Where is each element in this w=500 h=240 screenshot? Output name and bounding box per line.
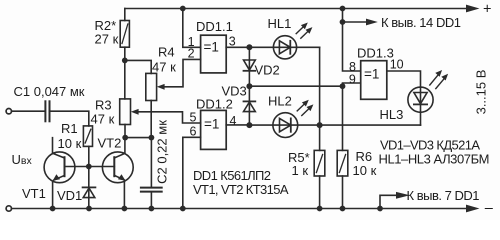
node R2/R3/R4 junction [122,58,128,64]
svg-text:1 к: 1 к [292,163,309,178]
svg-text:К выв. 14 DD1: К выв. 14 DD1 [381,15,461,30]
svg-text:VT1, VT2 КТ315А: VT1, VT2 КТ315А [193,182,289,197]
ground rail junction dots [50,206,56,212]
svg-text:HL3: HL3 [380,107,404,122]
wire HL row to HL3 [320,124,421,126]
wire top rail corner down to R2 [124,9,126,21]
wire VT1 emitter to ground rail [52,182,54,209]
svg-text:DD1.2: DD1.2 [196,97,233,112]
node on top rail [340,6,346,12]
wire base node to VT2 base [89,166,115,168]
svg-text:DD1 К561ЛП2: DD1 К561ЛП2 [193,168,271,183]
resistor R5 [314,150,325,176]
ground rail [6,206,11,211]
wire R4 bottom to C2 node [150,101,152,138]
wire collector row [125,137,151,139]
svg-text:10 к: 10 к [353,163,377,178]
wire junction to R4 top [125,60,151,73]
svg-text:6: 6 [190,125,197,139]
LED HL1 [249,46,296,48]
resistor R2 [120,21,129,48]
wire R5 top [319,125,321,150]
svg-text:R3: R3 [95,98,112,113]
svg-text:4: 4 [230,114,237,128]
svg-text:C1 0,047 мк: C1 0,047 мк [14,84,85,99]
wire pin 10 to HL3 [387,71,421,104]
svg-text:27 к: 27 к [95,32,119,47]
arrowhead end of ground rail [466,205,480,213]
svg-text:Uвх: Uвх [12,152,33,167]
wire R2 bottom to junction [124,47,126,60]
wire pin 3 output to node A [226,46,249,48]
svg-text:=1: =1 [204,40,219,55]
wire pin 6 to ground [183,137,201,208]
wire C2 node down to C2 [150,138,152,187]
wire HL3 cathode down to row [420,105,422,125]
node HL cathodes / R5 [317,122,323,128]
svg-text:47 к: 47 к [152,60,176,75]
svg-text:10 к: 10 к [58,136,82,151]
svg-text:VT2: VT2 [98,136,122,151]
wire HL1 down right column [319,47,321,125]
logic gate DD1.1 [201,35,227,73]
wire pin 8 from +rail tap [343,9,361,72]
resistor R1 [83,126,92,146]
wire R3 bottom to collector node [124,125,126,138]
svg-text:DD1.3: DD1.3 [357,46,394,61]
svg-text:=1: =1 [204,117,219,132]
svg-text:VD1–VD3 КД521А: VD1–VD3 КД521А [380,138,480,153]
resistor R6 [342,86,344,150]
capacitor C1 [45,101,49,121]
arrow to pin 14 label [343,21,368,23]
node R4 bottom / C2 [149,135,155,141]
HL1 emission arrows [296,25,305,34]
svg-text:10: 10 [390,58,404,72]
svg-text:3: 3 [229,35,236,49]
wire VT2 emitter to ground rail [123,182,125,209]
svg-text:HL1: HL1 [268,16,292,31]
svg-text:VT1: VT1 [22,186,46,201]
svg-text:DD1.1: DD1.1 [196,19,233,34]
arrowhead + end of top rail [466,5,480,13]
svg-text:С2 0,22 мк: С2 0,22 мк [155,120,170,184]
diode VD2 [248,47,250,86]
LED HL3 [408,87,433,112]
svg-text:2: 2 [188,47,195,61]
node B [246,83,252,89]
wire base node to VT1 base [65,166,89,168]
transistor VT2 [102,152,133,183]
svg-text:HL1–HL3 АЛ307БМ: HL1–HL3 АЛ307БМ [379,152,490,167]
wire pin 4 output to node C [226,124,249,126]
svg-text:+: + [483,2,491,18]
svg-text:R4: R4 [158,45,175,60]
top supply rail [125,8,467,10]
HL3 emission arrows [430,72,440,85]
wire C1 to R1 top [51,111,89,126]
wire C2 to ground rail [150,192,152,209]
node base junction [86,164,92,170]
svg-text:VD3: VD3 [222,84,247,99]
svg-text:5: 5 [190,111,197,125]
svg-text:R6: R6 [356,149,373,164]
LED HL2 [249,124,297,126]
logic gate DD1.2 [201,110,227,149]
node A [246,44,252,50]
tap K vyv 7 [380,195,397,208]
wire R1 bottom to base node [88,146,90,166]
svg-text:3...15 В: 3...15 В [474,70,489,115]
wire pin 1 from +rail [183,9,201,48]
R4 wiper arrow to pin 2 [162,59,201,86]
node C [246,122,252,128]
svg-text:=1: =1 [364,67,379,82]
logic gate DD1.3 [361,61,387,100]
transistor VT1 [44,152,75,183]
svg-text:R1: R1 [61,121,78,136]
node tap K vyv 14 [340,19,346,25]
pin numbers [188,35,404,139]
node pin9 / R6 [340,83,346,89]
capacitor C2 [141,188,162,192]
svg-text:К выв. 7 DD1: К выв. 7 DD1 [407,188,480,203]
wire pin 9 [343,83,361,86]
svg-text:VD2: VD2 [255,63,280,78]
wire junction to R3 top [124,60,126,99]
svg-text:9: 9 [349,72,356,86]
node pin1 on rail [180,6,186,12]
resistor R4 potentiometer body [146,73,157,100]
R3 wiper arrow to pin 5 [137,112,201,123]
diode VD3 [248,86,250,125]
wire node B to DD1.3 pin9 column [249,85,342,87]
svg-text:HL2: HL2 [268,94,292,109]
svg-text:47 к: 47 к [91,112,115,127]
node VT2 collector / R3 [122,135,128,141]
svg-text:–: – [485,201,494,217]
diode VD1 [88,167,90,209]
input terminal Uвх [6,109,11,114]
HL2 emission arrows [297,102,306,111]
resistor R3 potentiometer body [120,99,131,125]
wire input to C1 [12,110,45,112]
wire R5 bottom to rail [319,176,321,209]
wire R6 bottom to rail [342,176,344,209]
svg-text:VD1: VD1 [57,188,82,203]
